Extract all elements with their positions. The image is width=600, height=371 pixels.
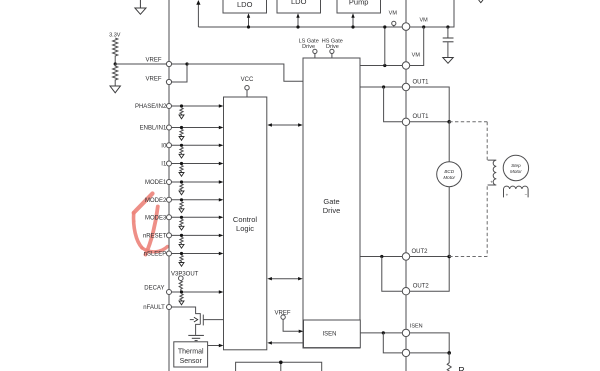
watermark red swirl (133, 194, 168, 255)
arrow into pump (352, 17, 354, 27)
gate drive box (303, 58, 360, 348)
svg-text:MODE1: MODE1 (145, 180, 167, 186)
stepper winding B (504, 186, 529, 197)
control logic box (224, 97, 267, 350)
wire thermal to control (208, 345, 219, 347)
svg-text:ENBL/IN1: ENBL/IN1 (140, 126, 167, 132)
ground (top left) (139, 0, 141, 8)
OUT2 pin 1 (402, 253, 409, 260)
input pin ENBL/IN1 (140, 125, 224, 140)
svg-text:Gate: Gate (323, 197, 339, 206)
dashed stepper connections (449, 121, 487, 123)
VREF internal net (172, 63, 187, 65)
thermal sensor box (174, 342, 208, 367)
input pin PHASE/IN2 (135, 104, 223, 119)
top-right arrow mark (cut) (479, 0, 483, 3)
ground (VM cap) (443, 58, 453, 64)
svg-text:ISEN: ISEN (322, 332, 336, 338)
ground (divider) (110, 86, 120, 93)
svg-text:VM: VM (419, 17, 428, 23)
svg-text:MODE3: MODE3 (145, 215, 167, 221)
input pin I0 (161, 143, 223, 158)
svg-text:BCD: BCD (444, 169, 454, 174)
svg-text:VCC: VCC (241, 77, 254, 83)
svg-text:OUT1: OUT1 (413, 114, 430, 120)
OUT1 pin 1 (402, 83, 409, 90)
bulk capacitor VM (446, 25, 449, 28)
charge pump box (337, 0, 381, 13)
node VREF divider (114, 62, 117, 65)
LDO box 1 (223, 0, 267, 13)
svg-text:VM: VM (412, 52, 421, 58)
svg-text:nRESET: nRESET (143, 233, 167, 239)
svg-text:OUT2: OUT2 (412, 249, 429, 255)
input pin I1 (161, 161, 223, 176)
svg-text:MODE2: MODE2 (145, 198, 167, 204)
control-gate bus arrow 2 (271, 278, 300, 280)
OUT2 row internal (360, 256, 402, 258)
input pin nRESET (143, 233, 223, 248)
OUT1 external wires (410, 87, 450, 122)
resistor divider top (113, 38, 118, 64)
svg-text:Motor: Motor (443, 175, 455, 180)
OUT2 pin 2 (402, 288, 409, 295)
VM bus wire (198, 0, 454, 27)
arrow into LDO1 (248, 17, 250, 27)
svg-text:Motor: Motor (510, 169, 522, 174)
svg-text:Thermal: Thermal (178, 349, 204, 356)
svg-text:+: + (490, 180, 493, 185)
ISEN row internal (360, 332, 402, 334)
VM row internal (360, 65, 402, 67)
step motor (503, 155, 528, 180)
svg-text:Drive: Drive (302, 44, 315, 50)
svg-text:I0: I0 (161, 143, 167, 149)
input pin MODE1 (145, 180, 223, 195)
svg-text:Pump: Pump (349, 0, 369, 7)
svg-text:LDO: LDO (237, 0, 253, 9)
svg-text:I1: I1 (161, 162, 167, 168)
nFAULT open-drain MOSFET (199, 313, 201, 324)
svg-text:R: R (458, 366, 465, 371)
svg-text:OUT2: OUT2 (413, 284, 430, 290)
svg-text:Control: Control (233, 215, 258, 224)
control-gate bus arrow 1 (271, 124, 300, 126)
svg-text:VREF: VREF (145, 76, 161, 82)
bottom block (cut) (236, 362, 322, 371)
svg-text:3.3V: 3.3V (109, 33, 121, 39)
wire nFAULT to mosfet drain (172, 307, 201, 314)
input pin MODE3 (145, 215, 223, 230)
stepper winding A (488, 160, 497, 185)
BDC motor (437, 162, 462, 187)
ISEN pin (402, 329, 409, 336)
IC boundary right (405, 0, 407, 371)
svg-text:Sensor: Sensor (180, 358, 203, 365)
svg-text:nFAULT: nFAULT (143, 305, 165, 311)
BDC motor line (448, 122, 450, 162)
svg-text:−: − (524, 192, 527, 197)
OUT1 row internal (360, 86, 402, 88)
ISEN external wires (410, 333, 450, 353)
svg-text:Drive: Drive (323, 206, 341, 215)
IC boundary left (168, 0, 170, 371)
arrow into LDO2 (297, 17, 299, 27)
svg-text:PHASE/IN2: PHASE/IN2 (135, 104, 167, 110)
sense resistor (447, 353, 451, 371)
svg-text:ISEN: ISEN (410, 324, 423, 330)
OUT2 external wires (410, 256, 450, 258)
svg-text:DECAY: DECAY (144, 286, 164, 292)
svg-text:Step: Step (511, 163, 521, 168)
wire external VM drop (410, 27, 424, 66)
svg-text:+: + (506, 192, 509, 197)
svg-text:VREF: VREF (145, 58, 161, 64)
svg-text:nSLEEP: nSLEEP (144, 252, 167, 258)
supply riser arrow (top left, cut) (197, 4, 199, 28)
ground (MOSFET source) (188, 334, 204, 336)
svg-text:VM: VM (389, 11, 398, 17)
resistor divider bottom (113, 64, 118, 86)
VM pin (large, on bus) (402, 23, 410, 31)
input pin MODE2 (145, 197, 223, 212)
ISEN pin 2 (402, 349, 409, 356)
node VM (external drop) (422, 25, 425, 28)
LDO box 2 (277, 0, 321, 13)
input pin DECAY (144, 286, 223, 305)
OUT1 pin 2 (402, 118, 409, 125)
ISEN block (304, 320, 361, 348)
svg-text:Logic: Logic (236, 224, 254, 233)
wire divider to VREF pin (115, 63, 166, 65)
wire ISEN to control (272, 342, 304, 344)
VM pin 2 (402, 62, 409, 69)
svg-text:OUT1: OUT1 (413, 79, 430, 85)
resistor V3P3OUT to DECAY (179, 281, 182, 293)
input pin nSLEEP (144, 251, 224, 266)
svg-text:V3P3OUT: V3P3OUT (171, 271, 199, 277)
svg-text:LDO: LDO (291, 0, 307, 6)
